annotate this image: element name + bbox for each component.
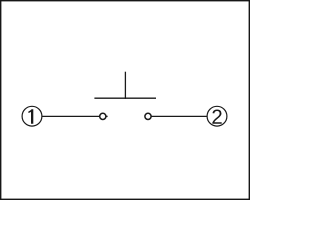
terminal 1 circle bbox=[22, 106, 42, 126]
terminal 1 label bbox=[28, 109, 33, 124]
left fixed contact bbox=[100, 113, 106, 119]
wire right fixed contact to terminal 2 bbox=[151, 115, 207, 117]
pushbutton switch actuator stem bbox=[124, 72, 126, 99]
terminal 2 label bbox=[212, 109, 221, 123]
terminal 2 circle bbox=[207, 106, 227, 126]
pushbutton switch movable contact bar bbox=[94, 97, 156, 99]
right fixed contact bbox=[145, 113, 151, 119]
left fixed contact point nub bbox=[106, 115, 107, 117]
wire terminal 1 to left fixed contact bbox=[42, 115, 100, 117]
